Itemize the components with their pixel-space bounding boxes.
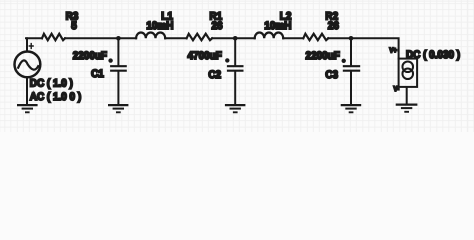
svg-text:10mH: 10mH xyxy=(146,20,173,32)
svg-text:26: 26 xyxy=(211,20,222,32)
ground xyxy=(396,105,418,112)
svg-text:2200uF: 2200uF xyxy=(73,50,108,62)
svg-text:C2: C2 xyxy=(208,69,221,81)
wire xyxy=(234,38,236,65)
wire xyxy=(26,37,42,39)
resistor R1 xyxy=(187,34,213,40)
svg-text:10mH: 10mH xyxy=(264,20,291,32)
wire xyxy=(328,38,398,58)
wire xyxy=(283,37,303,39)
wire xyxy=(406,88,408,103)
svg-text:4700uF: 4700uF xyxy=(188,50,223,62)
capacitor C2 xyxy=(225,58,243,70)
node junction C1 xyxy=(116,36,121,41)
svg-text:C1: C1 xyxy=(91,68,104,80)
wire xyxy=(26,78,28,104)
node junction C3 xyxy=(349,36,354,41)
inductor L2 xyxy=(255,32,284,38)
wire xyxy=(26,38,28,51)
wire xyxy=(234,72,236,104)
wire xyxy=(350,72,352,104)
ground xyxy=(17,105,38,112)
ground xyxy=(225,105,246,112)
svg-text:5: 5 xyxy=(71,20,77,32)
svg-text:C3: C3 xyxy=(325,69,338,81)
svg-text:V+: V+ xyxy=(389,48,396,55)
ground xyxy=(108,105,128,112)
svg-text:DC ( 0.030 ): DC ( 0.030 ) xyxy=(406,49,460,61)
wire xyxy=(212,37,255,39)
inductor L1 xyxy=(136,33,165,39)
capacitor C3 xyxy=(342,59,361,71)
resistor R3 xyxy=(42,34,65,40)
svg-text:2200uF: 2200uF xyxy=(306,50,341,62)
wire xyxy=(350,38,352,65)
wire xyxy=(65,37,136,39)
capacitor C1 xyxy=(108,58,126,70)
ground xyxy=(341,105,362,112)
wire xyxy=(117,72,119,104)
voltage source V1 xyxy=(15,43,41,77)
wire xyxy=(165,37,186,39)
voltmeter U1 xyxy=(399,59,418,87)
svg-text:DC ( 1.0 ): DC ( 1.0 ) xyxy=(30,77,73,89)
svg-text:26: 26 xyxy=(328,20,339,32)
wire xyxy=(117,38,119,65)
resistor R2 xyxy=(303,34,328,40)
svg-text:AC ( 1.0 0 ): AC ( 1.0 0 ) xyxy=(30,91,82,103)
node junction C2 xyxy=(233,36,238,41)
svg-text:V-: V- xyxy=(394,86,400,93)
